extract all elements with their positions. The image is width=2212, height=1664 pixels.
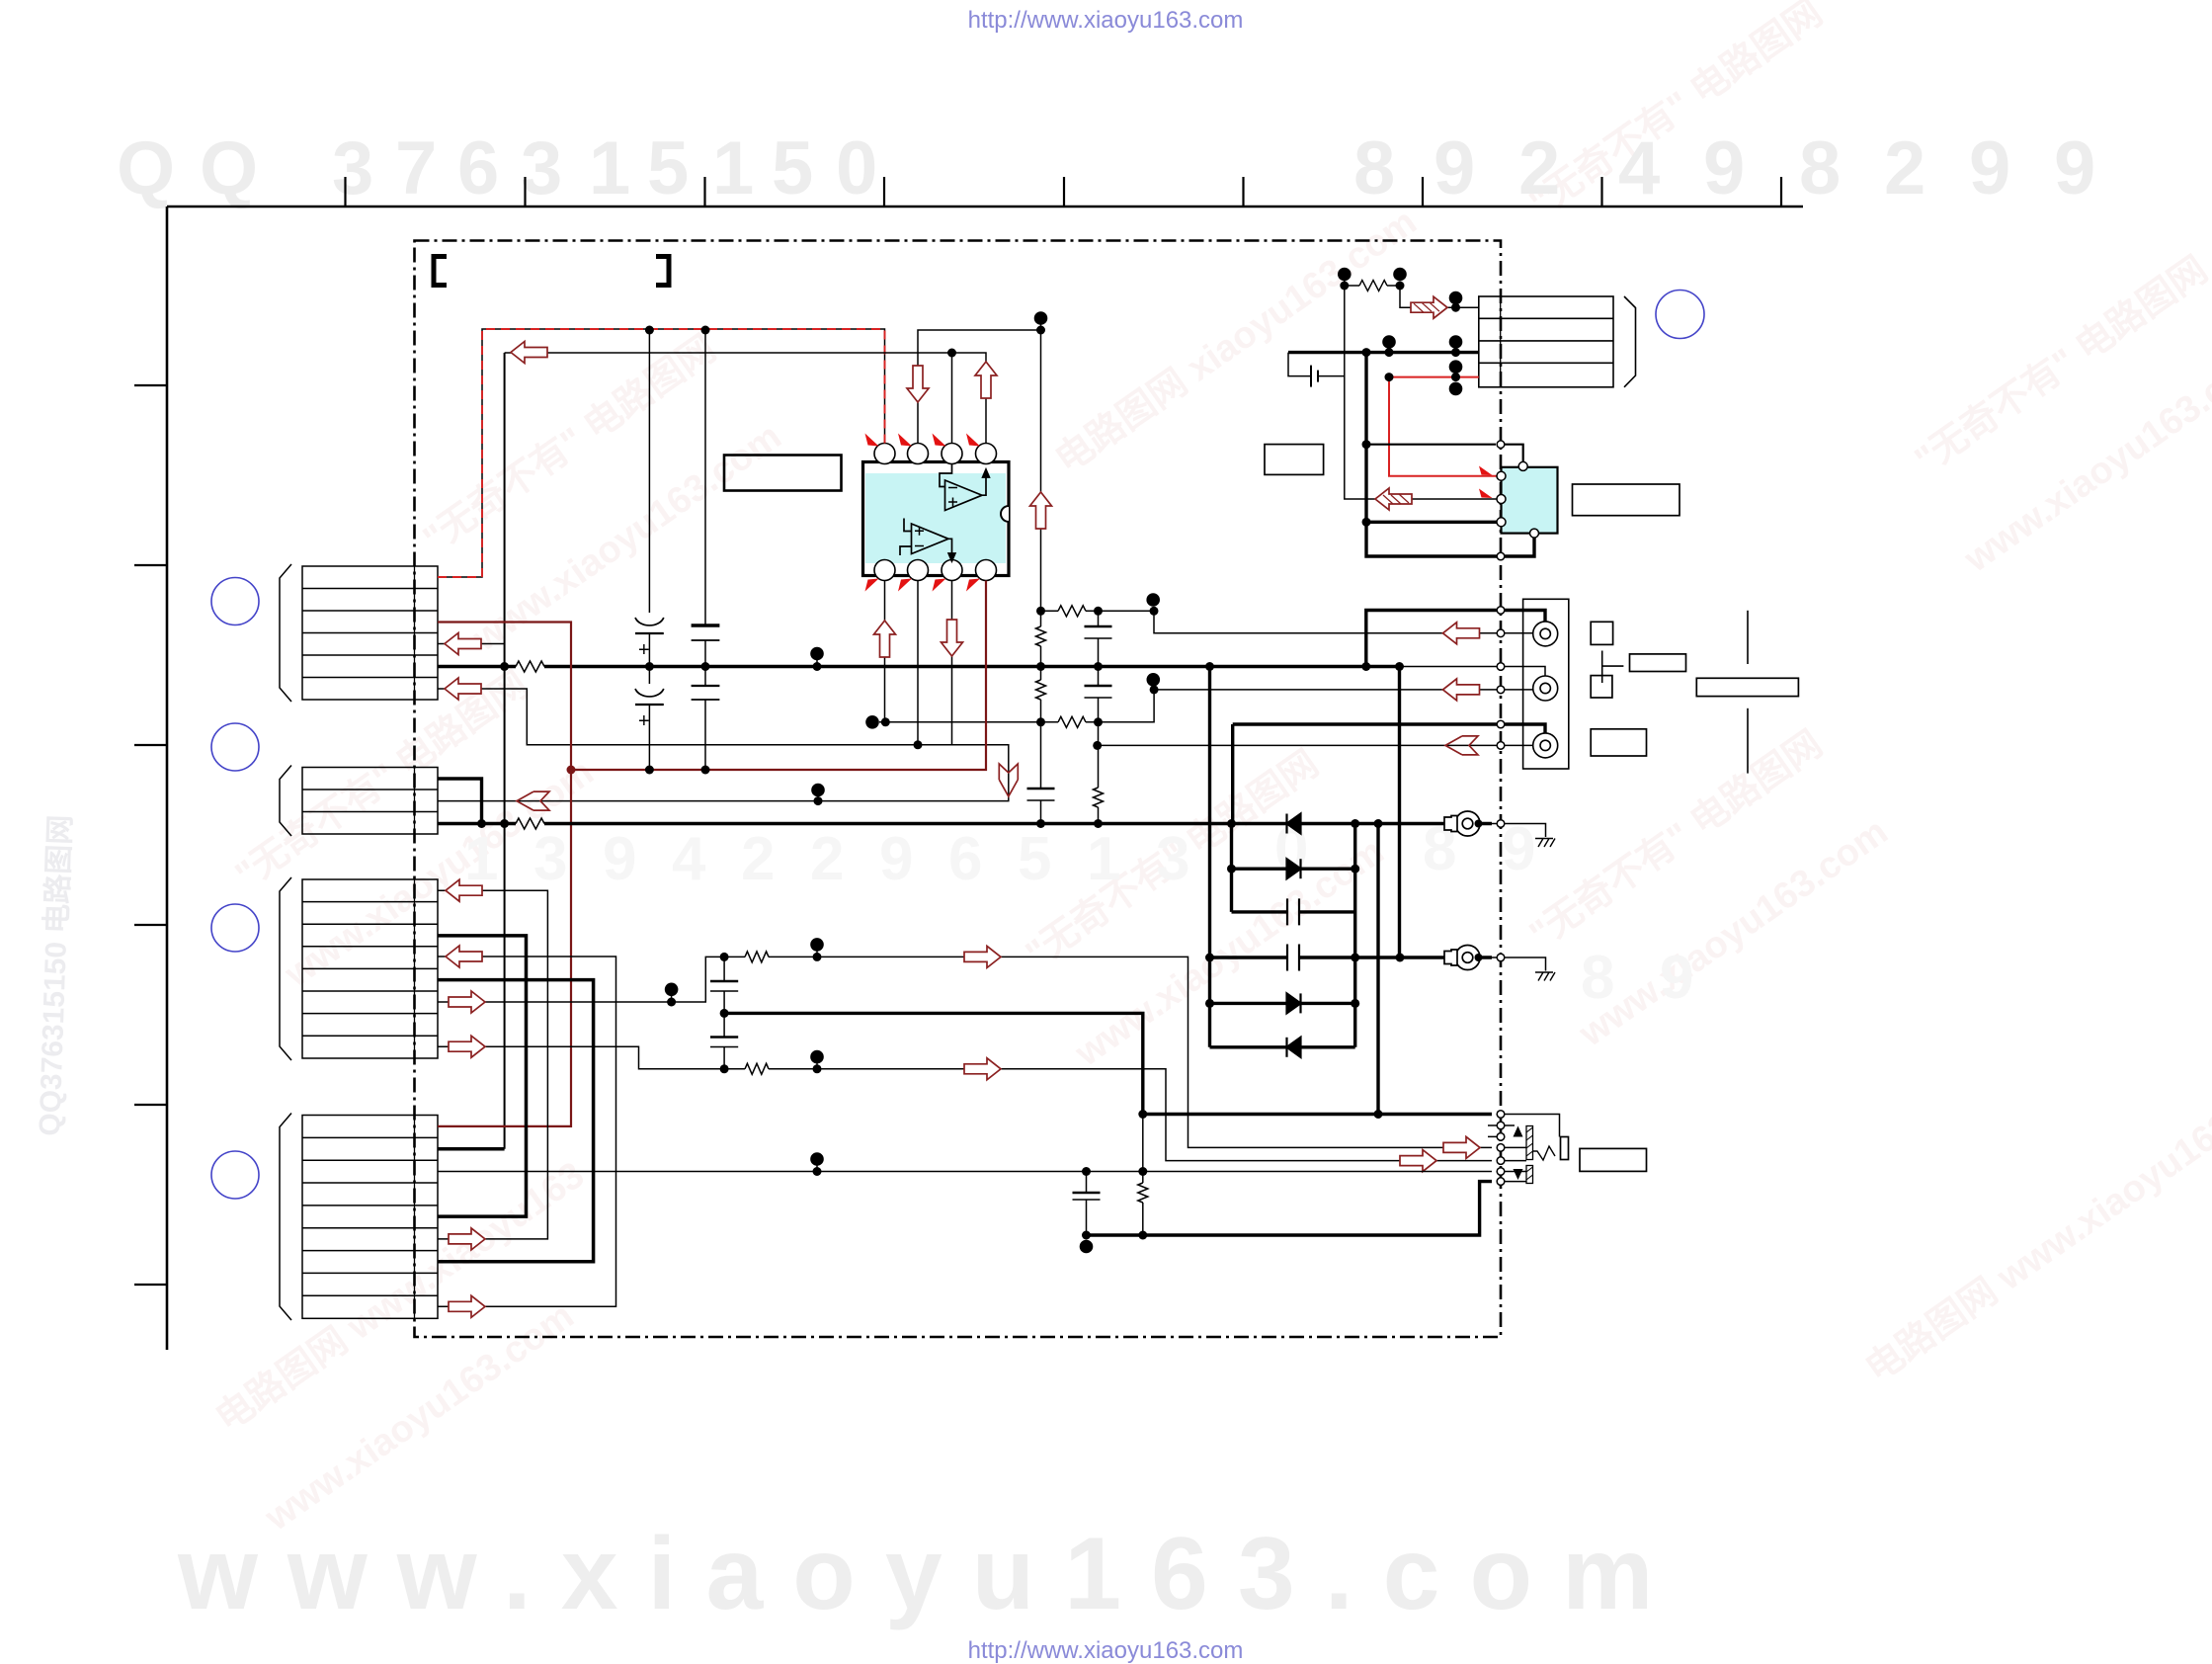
svg-text:5: 5 [647,126,689,210]
resistor R5 (horizontal) [1058,716,1086,727]
antenna line above [1747,611,1749,664]
up arrow on U1 pin1 riser [975,362,997,398]
svg-text:www.xiaoyu163.com: www.xiaoyu163.com [464,416,788,660]
svg-text:1: 1 [712,126,754,210]
J1 triangle up [1514,1126,1523,1137]
svg-text:0: 0 [836,126,877,210]
junction dot maroon branch [567,766,576,775]
U1 pin3 riser with corner to resistor column [918,330,1041,444]
svg-text:www.xiaoyu163.com: www.xiaoyu163.com [257,1295,581,1539]
big/small dots on CN3 pin6 wire [665,983,679,997]
svg-text:9: 9 [1434,126,1475,210]
svg-text:9: 9 [1502,815,1535,883]
battery B1 drop [1288,353,1311,376]
wire CN1 pin6 to U1 pin6/7 region and back to CN2 pin2 [438,689,1009,801]
J1 stubs for pins 3 and 6 [1488,1125,1497,1136]
bold wire box pin C [1366,521,1497,524]
svg-text:9: 9 [2054,126,2095,210]
wire CN1 pin4 [438,643,505,645]
svg-text:9: 9 [1969,126,2010,210]
J1 label box [1580,1148,1647,1171]
connector CN3 body [302,879,438,1058]
U1 pin 3 [908,444,929,464]
ref circle B (blue) [211,723,259,771]
junction dots on bus1 [500,662,509,671]
dots on red wire [1385,373,1394,381]
red dashed overlay wire [438,329,885,577]
CN3 pin8 wire east with step [438,1046,1492,1160]
svg-text:3: 3 [533,825,567,893]
junction dot pin5 wire [881,717,890,726]
op-amp IC U1 body [863,462,1010,576]
wire U1 pin5 to resistor column [879,721,1041,723]
RCA jack3 top wire [1233,724,1545,733]
riser from jack3 top wire down to bus2 [1231,724,1234,824]
capacitor C3 (x=714 upper) [692,330,720,667]
faint gray digit watermark (middle) [464,815,1693,1012]
vertical x=1360.8 (R11 to box pin B) [1345,286,1497,499]
big/small dots on motor row1 wire [1449,291,1463,305]
motor connector M1 block [1479,296,1613,387]
U1 pin8 red marker [966,579,980,592]
down arrow on U1 pin7 riser [942,620,963,656]
resistor R9 on 1081.8 wire [745,1063,769,1074]
electrolytic capacitor C2 (x=657.4 lower) [635,667,664,771]
U1 pin1 red marker [966,434,980,447]
arrow right CN4 pin9 [449,1295,485,1317]
long label box right [1696,678,1798,696]
ref circle C (blue) [211,904,259,952]
U1 label box [724,456,842,491]
resistor R1 on bus1 [516,661,544,672]
U1 pin 5 [874,560,895,581]
chevron left on jack3 center wire [1445,736,1478,755]
maroon branch to U1 pin8 [571,581,986,771]
J1 spring zigzag [1533,1146,1556,1160]
small square label 1 [1591,622,1612,644]
bracket 】 [656,257,669,286]
big dot marker above bus1 [810,647,824,661]
label box mid [1630,654,1686,672]
up arrow on U1 pin5 riser [874,621,896,657]
ring terminal E2 [1444,946,1480,970]
open pin circle on boundary (row D) [1497,954,1505,961]
faint gray big digit watermark row (top) [117,126,2095,210]
junction dots bus2 [477,819,486,828]
svg-text:电路图网 www.xiaoyu163: 电路图网 www.xiaoyu163 [1858,1105,2212,1390]
U1 pin5 red marker [865,579,879,592]
CN3 pin6 wire east with jog up [438,957,1492,1147]
wire y=730.8 between columns [1041,721,1099,723]
resistor R8 on 968.4 wire [745,952,769,962]
connector CN1 bracket [280,564,291,702]
svg-text:+: + [638,710,650,732]
diode D4 row y=1059.8 (cathode left) [1210,1045,1355,1048]
hatched arrow left on box pin B wire [1375,488,1412,510]
big/small dot pair at riser top [1147,673,1161,687]
junction dots on red-dash net at caps [645,326,654,335]
bold bus y=356.6 to motor row3 [1288,351,1479,354]
connector CN2 bracket [280,766,291,837]
open circle on boundary y=449.7 [1497,441,1505,449]
arrow left CN1 pin4 [445,633,481,655]
faint gray watermark www.xiaoyu163.com (bottom) [177,1517,1682,1631]
arrow left on jack2 center wire [1443,679,1480,701]
arrow left on jack1 center wire [1443,623,1480,644]
wire y=618.3 between columns [1041,610,1147,612]
T symbol [1602,651,1624,684]
RCA jack block J2 [1523,599,1569,769]
diode frame verticals below bus2 [1232,824,1355,1047]
capacitor C7 [1085,685,1112,688]
op-amp A (upper) [940,464,989,511]
svg-text:3: 3 [1156,825,1189,893]
svg-text:5: 5 [772,126,813,210]
wire CN1 pin1 to U1 pin4 (black under red dash) [438,329,885,577]
resistor R11 wire at y=289 [1345,285,1400,287]
svg-text:4: 4 [1618,126,1660,210]
CN3 pin3 wire to CN4 pin5 (net x=532.5, bold) [438,936,527,1216]
J1 hatched sleeve bar upper [1526,1126,1533,1160]
red wedge marker at box pin B [1479,489,1493,499]
svg-text:1: 1 [464,825,498,893]
maroon wire CN1 pin3 down to CN4 pin1 [438,581,986,1126]
M1 label box (left) [1265,445,1324,475]
arrow right CN3 pin8 [449,1036,485,1057]
U1 notch on right edge [1001,506,1009,522]
big/small dots on 968.4 wire [810,938,824,952]
svg-text:2: 2 [741,825,775,893]
border tick marks left [134,385,167,1285]
svg-text:6: 6 [457,126,499,210]
cyan box U2 [1502,467,1558,534]
resistor R7 on bus2 [516,818,544,829]
big/small dot pair on CN2 pin2 wire [811,784,825,797]
dot at pin C branch [1362,518,1371,527]
op-amp B (lower) [900,519,955,562]
J1 switch contact rectangle [1561,1137,1569,1160]
big/small dots on 1081.8 wire [810,1050,824,1064]
U1 pin6 red marker [898,579,912,592]
diode D1 on bus2 (cathode left) [1287,814,1301,834]
main bus1 y=674.5 (CN1 pin5) [438,665,1400,669]
diode D2 row y=879.2 [1232,868,1355,871]
big/small dots on CN4 pin3 wire [810,1152,824,1166]
bracket 【 [434,257,447,286]
vertical x=1156.8 continues bus3 to 1250 wire with resistor R10 [1142,1115,1144,1236]
CN3 pin4 wire to CN4 pin9 (net x=623.5) [438,957,616,1306]
svg-text:Q: Q [117,126,175,210]
capacitor C12 x=1099.5 [1086,1172,1088,1236]
CN3 pin1 wire to CN4 pin6 (net x=554.4) [438,890,547,1239]
connector CN4 bracket [280,1114,291,1321]
U1 pin 8 [976,560,997,581]
svg-text:4: 4 [672,825,706,893]
ref circle D (blue) [211,1151,259,1199]
open pin circle on boundary (bus2) [1497,820,1505,828]
capacitor C5 [1027,788,1055,790]
svg-text:3: 3 [521,126,562,210]
junction dot 1081.8 column [720,1064,729,1073]
diode D3 row y=1015.4 [1210,1002,1355,1005]
sheet border top line [167,206,1803,208]
svg-text:9: 9 [1660,944,1693,1012]
CN3 pin5 wire to CN4 pin7 (net x=600.6, bold) [438,980,594,1262]
dots on bus 356.6 [1362,348,1371,357]
arrow left on 357 wire [511,342,547,364]
wire R11 down and to motor row1 [1400,286,1479,307]
ground G2 [1492,957,1546,971]
big dot at pin5 wire [865,715,879,729]
svg-text:2: 2 [1884,126,1925,210]
svg-text:9: 9 [1703,126,1745,210]
pin5 net wire continues east and up to RCA jack2 center [1099,690,1533,722]
arrow right CN4 pin6 [449,1228,485,1250]
down chevron on riser x=1020.8 [999,764,1018,796]
ring terminal E1 [1444,811,1480,836]
J1 top wire to switch contact [1505,1115,1560,1137]
U1 pin 4 [874,444,895,464]
small square label 2 [1591,676,1612,698]
connector CN3 bracket [280,877,291,1060]
capacitor C4 (x=714 lower) [692,667,720,771]
bus3 y=1127.5 to headphone jack [1143,1113,1492,1116]
arrow right on 968.4 wire [964,946,1001,967]
U1 pin2 red marker [933,434,946,447]
capacitor C6 [1085,625,1112,628]
svg-text:3: 3 [332,126,373,210]
antenna line below [1747,708,1749,774]
up arrow on column x=1053.5 [1030,492,1052,529]
big dot under 1250 wire [1080,1240,1094,1254]
U1 pin 6 [908,560,929,581]
U1 pin3 red marker [898,434,912,447]
capacitor C8 row y=922.9 [1232,910,1355,913]
svg-text:9: 9 [603,825,636,893]
ground G1 [1492,824,1546,838]
arrow right near jack wire4 [1443,1136,1480,1158]
resistor network column x=1053.5 [1027,318,1055,824]
J1 hatched sleeve bar lower [1526,1166,1533,1184]
headphone jack J1 pin circles on boundary [1497,1111,1505,1186]
ref circle M (blue) [1656,291,1704,339]
motor bracket [1624,296,1636,387]
resistor R6 (vertical) [1094,788,1104,807]
bold corner bus1 east end down to row D [1398,667,1401,958]
connector CN4 body [302,1116,438,1319]
svg-text:http://www.xiaoyu163.com: http://www.xiaoyu163.com [968,7,1244,34]
svg-text:2: 2 [1518,126,1560,210]
U2 pin circles [1497,461,1539,538]
CN2 pin1 jog down to bus2 [438,779,482,824]
svg-text:www.xiaoyu163.com: www.xiaoyu163.com [1571,811,1895,1055]
resistor R11 [1359,281,1387,291]
RCA jack1 top wire from bus1 riser [1366,611,1545,667]
bus1 thin continuation to RCA jack2 top [1400,667,1546,677]
J1 triangle down [1514,1169,1523,1180]
junction dot y=968.4 column [720,953,729,961]
RCA jack3 center wire [1098,744,1533,746]
big/small dots left of R11 [1338,268,1352,282]
svg-text:8: 8 [1581,944,1614,1012]
red wedge marker at box pin A [1479,466,1493,476]
down arrow on U1 pin3 riser [907,366,929,402]
vertical net x=510.6 (to CN4 pin2) [504,353,506,1149]
resistor R3 (vertical) [1036,680,1046,700]
U1 pin 1 [976,444,997,464]
red wire motor row4 to box pin A [1389,377,1497,476]
bold vertical x=1383 (bus 356.6 down to bottom bus) [1366,353,1534,556]
svg-text:+: + [638,639,650,661]
row D y=969 with capacitor C9 [1210,956,1493,958]
svg-text:1: 1 [589,126,630,210]
svg-text:6: 6 [948,825,982,893]
U1 pin5 riser lower [884,581,886,722]
RCA jack 1 [1533,622,1558,646]
svg-text:电路图网 www.xiaoyu163: 电路图网 www.xiaoyu163 [208,1154,592,1440]
RCA jack 3 [1533,733,1558,758]
big dot top of column [1034,311,1048,325]
electrolytic capacitor C1 (x=657.4 upper) [635,330,664,667]
junction dots column x=1053.5 [1036,717,1045,726]
arrow left CN1 pin6 [445,678,481,700]
resistor R4 (horizontal) [1058,606,1086,617]
capacitor chain column x=733.1 [710,957,738,1068]
boundary pin circles for RCA wires [1497,607,1505,750]
CN4 pin1 red marker none / pin3 wire east [438,1171,1492,1173]
svg-text:Q: Q [200,126,258,210]
junction dot U1 pin6 riser [914,740,923,749]
bold wire y=1250 to headphone jack sleeve [1087,1182,1493,1235]
U1 pin7 red marker [933,579,946,592]
junction dot pin2/357 [947,349,956,358]
wire to top circle pin of box [1366,444,1496,446]
junction dots maroon at caps [645,766,654,775]
wire U1 pins1,2 to left (net at y=357) [505,353,986,444]
open circle on boundary y=563 [1497,552,1505,560]
U1 pin6 riser lower [917,581,919,745]
svg-text:"无奇不有" 电路图网: "无奇不有" 电路图网 [1522,0,1830,224]
svg-text:http://www.xiaoyu163.com: http://www.xiaoyu163.com [968,1637,1244,1664]
svg-text:2: 2 [810,825,844,893]
sheet border left line [166,207,169,1350]
U1 pin7 riser lower [951,581,953,745]
connector CN2 body [302,768,438,835]
arrow right near jack wire5 [1400,1150,1436,1172]
bus2 y=833.5 from CN2 pin3 to ground pin [438,822,1492,825]
svg-text:QQ376315150 电路图网: QQ376315150 电路图网 [34,814,77,1136]
wire 618.3 jogs down to RCA jack1 center [1099,611,1533,633]
svg-text:www.xiaoyu163.com: www.xiaoyu163.com [177,1517,1682,1631]
vertical x=1395 bus2 to bus3 [1376,824,1379,1115]
arrow left CN3 pin4 [446,946,482,967]
border tick marks top [346,177,1782,207]
resistor R2 (vertical) [1036,626,1046,646]
U2 label box [1573,484,1680,516]
svg-text:7: 7 [395,126,437,210]
svg-text:8: 8 [1799,126,1841,210]
svg-text:8: 8 [1353,126,1395,210]
U1 pin 2 [942,444,962,464]
RCA jack 2 [1533,676,1558,701]
capacitor C10 [710,980,738,982]
J1 tip contact wires [1505,1147,1526,1181]
svg-text:1: 1 [1087,825,1120,893]
column x=1111.5 with caps [1085,611,1112,823]
label box bottom [1591,729,1646,756]
U1 pin 7 [942,560,962,581]
arrow left CN3 pin1 [446,879,482,901]
dash-dot block boundary box [415,241,1502,1338]
capacitor C11 [710,1036,738,1038]
svg-text:9: 9 [879,825,913,893]
arrow right CN3 pin6 [449,991,485,1013]
connector CN1 body [302,566,438,700]
bold vertical bus1 to diodes x=1224.5 [1208,667,1211,1047]
svg-text:5: 5 [1018,825,1051,893]
big/small dots right of R11 [1393,268,1407,282]
bold wire y=1025.4 to bus3 [724,1013,1143,1114]
CN4 pin2 wire [438,1147,505,1151]
ref circle A (blue) [211,578,259,625]
chevron left on CN2 pin2 wire [517,791,549,810]
arrow right on 1081.8 wire [964,1058,1001,1080]
dot at 449.7 branch [1362,440,1371,449]
junction dot pin3 wire [1036,326,1045,335]
U1 pin4 red marker [865,434,879,447]
hatched arrow right on motor row1 wire [1411,296,1447,318]
